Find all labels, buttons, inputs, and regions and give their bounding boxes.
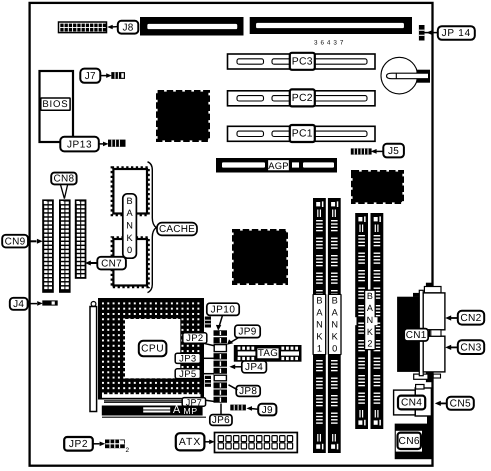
svg-text:CN6: CN6 bbox=[399, 436, 420, 447]
svg-text:JP10: JP10 bbox=[211, 305, 236, 316]
label CACHE bbox=[157, 223, 197, 236]
connector J8 header bbox=[59, 22, 107, 33]
connector CN1 block bbox=[397, 293, 419, 372]
svg-text:A: A bbox=[173, 404, 181, 416]
CN1 bracket bar bbox=[419, 290, 423, 375]
svg-text:0: 0 bbox=[127, 245, 132, 255]
ATX power connector bbox=[215, 433, 298, 453]
svg-text:K: K bbox=[127, 233, 134, 243]
svg-text:JP6: JP6 bbox=[212, 415, 230, 426]
svg-text:0: 0 bbox=[332, 344, 337, 354]
svg-text:CN8: CN8 bbox=[53, 174, 74, 185]
ISA slot 2 bbox=[250, 17, 412, 34]
svg-text:JP2: JP2 bbox=[186, 333, 203, 344]
label BANK1 bbox=[313, 294, 326, 354]
svg-text:J7: J7 bbox=[85, 71, 96, 82]
svg-text:BIOS: BIOS bbox=[42, 99, 68, 110]
jumper J7 block bbox=[111, 72, 125, 79]
label CN8 bbox=[51, 173, 76, 199]
side jumper b bbox=[205, 376, 211, 387]
svg-text:CN3: CN3 bbox=[460, 342, 481, 353]
svg-text:PC2: PC2 bbox=[292, 93, 313, 104]
label JP7 bbox=[182, 398, 213, 408]
svg-text:N: N bbox=[126, 221, 133, 231]
port CN2 shell bbox=[423, 293, 445, 330]
svg-text:JP2: JP2 bbox=[69, 439, 88, 450]
chip U1 bbox=[158, 92, 209, 141]
label JP14 bbox=[425, 26, 475, 40]
label CPU bbox=[139, 341, 167, 356]
svg-text:JP13: JP13 bbox=[67, 139, 92, 150]
svg-text:K: K bbox=[316, 332, 323, 342]
label BANK0 cache bbox=[123, 194, 137, 258]
TAG chip bbox=[234, 345, 302, 362]
svg-text:J5: J5 bbox=[388, 146, 399, 157]
svg-text:JP4: JP4 bbox=[245, 362, 263, 373]
label CN1 bbox=[404, 329, 428, 341]
svg-text:B: B bbox=[367, 291, 373, 301]
CN1 bracket bottom block bbox=[426, 372, 432, 382]
jumper JP14 block bbox=[419, 25, 425, 41]
label JP2 cpu bbox=[183, 333, 214, 346]
label JP3 bbox=[175, 353, 214, 364]
label BANK2 bbox=[365, 290, 376, 349]
ZIF lever bar bbox=[90, 302, 97, 412]
label JP9 bbox=[227, 325, 260, 345]
ISA slot 1 bbox=[140, 17, 244, 36]
label JP2 bottom bbox=[64, 437, 105, 451]
CN1 middle tab b bbox=[431, 330, 441, 336]
label CN3 bbox=[445, 340, 484, 354]
svg-text:A: A bbox=[367, 303, 373, 313]
svg-text:N: N bbox=[316, 320, 323, 330]
svg-text:JP 14: JP 14 bbox=[442, 28, 471, 39]
DIMM tab left bbox=[353, 317, 356, 325]
AGP slot bbox=[216, 158, 337, 173]
svg-text:CACHE: CACHE bbox=[159, 224, 195, 235]
label JP8 bbox=[229, 385, 261, 397]
svg-text:CPU: CPU bbox=[141, 343, 164, 354]
jumper JP2 block bbox=[105, 440, 130, 455]
svg-text:A: A bbox=[332, 307, 339, 317]
svg-text:PC1: PC1 bbox=[292, 129, 313, 140]
DIMM slot BANK0 bbox=[328, 198, 341, 453]
text 36437 bbox=[314, 39, 344, 46]
svg-text:K: K bbox=[332, 332, 339, 342]
svg-text:N: N bbox=[367, 315, 374, 325]
svg-text:B: B bbox=[316, 295, 322, 305]
label CN2 bbox=[445, 311, 484, 325]
svg-text:PC3: PC3 bbox=[292, 57, 313, 68]
label CN5 bbox=[435, 397, 474, 410]
label CN4 bbox=[398, 396, 425, 410]
CN1 bottom tab bbox=[414, 374, 428, 379]
svg-text:CN5: CN5 bbox=[450, 399, 471, 410]
AMP connector bar bbox=[102, 401, 206, 417]
DIMM slot BANK1 bbox=[313, 198, 326, 453]
edge block CN4-CN6 bbox=[427, 416, 433, 424]
label JP4 bbox=[229, 361, 266, 373]
svg-text:J9: J9 bbox=[262, 405, 273, 416]
SIMM slot CN9-2 bbox=[59, 199, 71, 292]
chip U2 bbox=[234, 231, 287, 284]
svg-text:AGP: AGP bbox=[268, 160, 288, 171]
label JP10 bbox=[207, 303, 239, 330]
cache chip B bbox=[112, 237, 149, 287]
DIMM slot BANK2a bbox=[355, 213, 368, 429]
CPU socket bbox=[98, 298, 204, 400]
svg-text:JP5: JP5 bbox=[179, 369, 196, 380]
label JP13 bbox=[60, 137, 108, 152]
svg-text:CN1: CN1 bbox=[406, 330, 427, 341]
port CN3 shell bbox=[423, 336, 445, 372]
svg-text:3 6 4 3 7: 3 6 4 3 7 bbox=[314, 39, 344, 46]
svg-text:1: 1 bbox=[317, 344, 322, 354]
label BIOS bbox=[41, 98, 70, 110]
svg-text:A: A bbox=[316, 307, 323, 317]
PCI slot PC2 bbox=[228, 89, 376, 106]
CN1 right bottom tab bbox=[433, 374, 440, 378]
SIMM slot CN9-1 bbox=[42, 199, 54, 292]
CN1 top tab bbox=[424, 287, 441, 293]
jumper J9 block bbox=[230, 405, 246, 411]
DIMM slot BANK2b bbox=[371, 213, 384, 429]
svg-text:CN4: CN4 bbox=[401, 398, 422, 409]
svg-text:B: B bbox=[127, 196, 133, 206]
svg-text:N: N bbox=[331, 320, 338, 330]
side jumper a bbox=[205, 317, 211, 328]
label CN9 bbox=[2, 235, 43, 248]
connector CN4 outer bbox=[394, 385, 432, 417]
svg-text:CN7: CN7 bbox=[101, 258, 122, 269]
cache bracket bbox=[148, 162, 157, 293]
svg-text:JP3: JP3 bbox=[179, 354, 196, 365]
label CN7 bbox=[85, 257, 126, 270]
svg-text:JP8: JP8 bbox=[239, 386, 257, 397]
label J5 bbox=[371, 144, 404, 158]
jumper J5 block bbox=[351, 148, 372, 154]
jumper column JP2-JP9 bbox=[214, 330, 228, 402]
jumper JP13 block bbox=[108, 140, 126, 147]
SIMM slot CN9-3 bbox=[75, 199, 87, 278]
connector CN6 bbox=[395, 424, 433, 460]
label J8 bbox=[107, 21, 138, 34]
label ATX bbox=[176, 433, 215, 450]
cache chip A bbox=[112, 167, 149, 215]
label JP5 bbox=[175, 369, 214, 380]
label JP6 bbox=[210, 404, 232, 427]
jumper J4 block bbox=[42, 300, 57, 305]
PCI slot PC1 bbox=[228, 125, 376, 142]
svg-text:JP9: JP9 bbox=[238, 327, 256, 338]
svg-text:CN2: CN2 bbox=[460, 313, 481, 324]
PCI slot PC3 bbox=[228, 53, 376, 70]
svg-text:ATX: ATX bbox=[179, 437, 201, 448]
label J4 bbox=[10, 298, 43, 310]
svg-text:TAG: TAG bbox=[258, 348, 278, 359]
svg-text:B: B bbox=[332, 295, 338, 305]
label J7 bbox=[80, 69, 112, 83]
svg-text:2: 2 bbox=[367, 339, 372, 349]
svg-text:J8: J8 bbox=[122, 22, 133, 33]
label BANK0 dimm bbox=[328, 294, 341, 354]
svg-text:K: K bbox=[367, 327, 373, 337]
BIOS chip bbox=[40, 71, 74, 142]
svg-text:2: 2 bbox=[126, 447, 130, 454]
label CN6 bbox=[398, 433, 421, 449]
svg-text:J4: J4 bbox=[13, 299, 24, 310]
CN1 bracket top block bbox=[426, 283, 432, 297]
svg-text:CN9: CN9 bbox=[5, 236, 26, 247]
chip U3 bbox=[353, 172, 403, 203]
svg-text:JP7: JP7 bbox=[186, 398, 202, 408]
battery bbox=[381, 57, 430, 94]
DIMM tab right bbox=[374, 317, 377, 325]
label J9 bbox=[246, 404, 276, 416]
svg-text:A: A bbox=[127, 208, 134, 218]
CN1 middle tab a bbox=[423, 330, 429, 336]
